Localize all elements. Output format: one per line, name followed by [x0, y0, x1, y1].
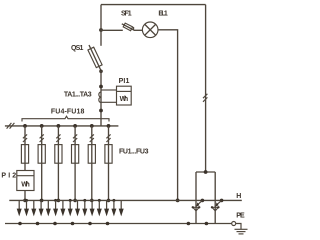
svg-text:EL1: EL1: [158, 11, 167, 18]
node : bridge center dot: [204, 170, 208, 174]
node : dot below TA: [99, 109, 103, 113]
node : N line junction dot drop 6: [107, 199, 111, 203]
arrow : outgoing line 4: [39, 199, 44, 217]
wire : drop 4 upper: [74, 126, 76, 145]
arrow : outgoing line 12: [97, 199, 102, 217]
wire : drop 6 lower to N line: [108, 164, 110, 201]
cable mark on drop 5: [90, 134, 94, 142]
node : N line junction dot drop 2: [40, 199, 44, 203]
arrow : outgoing line 8: [68, 199, 73, 217]
arrow : outgoing line 11: [90, 200, 95, 216]
svg-text:TA1...TA3: TA1...TA3: [64, 91, 92, 98]
arrow : outgoing line 5: [46, 200, 51, 216]
wire : right arrester vertical: [214, 172, 216, 224]
current transformer TA1...TA3: [99, 92, 101, 103]
wire : drop 2 lower to N line: [41, 164, 43, 201]
PE line: [5, 223, 232, 225]
cable mark on drop 6: [106, 134, 110, 142]
wire : drop 3 upper: [57, 126, 59, 145]
wire : TA tap upper to PI1: [101, 89, 117, 91]
fuse on drop 4: [72, 145, 79, 164]
node : QS1 pivot dot: [99, 70, 103, 74]
wire : drop 5 lower to N line: [91, 164, 93, 201]
node : bus junction dot drop 3: [57, 124, 61, 128]
brace over group fuses: [22, 116, 109, 121]
arrow : outgoing line 7: [60, 200, 65, 216]
cable mark on drop 3: [56, 134, 60, 142]
cable mark on drop 2: [40, 134, 44, 142]
arrow : outgoing line 15: [119, 200, 124, 216]
node : N line junction dot drop 1: [23, 199, 27, 203]
wire : drop 1 upper: [24, 126, 26, 145]
arrow : outgoing line 9: [75, 200, 80, 216]
wire : drop 3 lower to N line: [57, 164, 59, 201]
bus bar: [5, 125, 119, 127]
meter PI1 box with Wh: [117, 86, 132, 105]
terminal circle on PE line: [232, 222, 236, 226]
wire : drop 1 to meter PI2: [24, 164, 26, 171]
node : lamp return on N line: [176, 199, 180, 203]
node : bus junction dot drop 1: [23, 124, 27, 128]
node : PE line dot 3: [53, 222, 57, 226]
node : PE line dot 2: [36, 222, 40, 226]
node : PE line dot 4: [71, 222, 75, 226]
node : N line junction dot drop 5: [90, 199, 94, 203]
svg-text:SF1: SF1: [121, 11, 132, 18]
wire : PE to ground: [236, 224, 241, 230]
meter PI2 box with Wh: [17, 171, 34, 191]
arrow : outgoing line 2: [24, 199, 29, 217]
wire : drop 6 upper: [108, 126, 110, 145]
wire : SF1 to EL1: [134, 29, 143, 31]
arrow : outgoing line 1: [17, 200, 22, 216]
cable mark on right feeder: [203, 94, 207, 102]
lamp EL1: [142, 22, 158, 38]
wire : drop 4 lower to N line: [74, 164, 76, 201]
fuse on drop 6: [105, 145, 112, 164]
arrow : outgoing line 10: [82, 199, 87, 217]
node : PE line dot 1: [18, 222, 22, 226]
wire : left arrester vertical: [195, 172, 197, 224]
svg-text:PI2: PI2: [1, 173, 16, 180]
wire : drop 5 upper: [91, 126, 93, 145]
node : PE line dot 6: [106, 222, 110, 226]
wire : bridge over arresters: [196, 171, 215, 173]
cable mark at bus left end: [7, 123, 15, 129]
node : N line junction dot drop 3: [57, 199, 61, 203]
node : PE line dot 5: [88, 222, 92, 226]
wire : feeder QS1 to bus: [100, 71, 102, 126]
node : PE dot left: [187, 222, 191, 226]
wire : branch to SF1: [101, 29, 123, 31]
fuse on drop 3: [55, 145, 62, 164]
node : bus junction dot drop 5: [90, 124, 94, 128]
svg-text:PE: PE: [236, 213, 245, 220]
svg-text:QS1: QS1: [71, 45, 83, 52]
svg-text:PI1: PI1: [119, 78, 130, 85]
cable mark on drop 1: [23, 134, 27, 142]
node : bus junction dot drop 2: [40, 124, 44, 128]
node : PE dot right: [205, 222, 209, 226]
switch-fuse QS1: [88, 45, 103, 73]
arrow : outgoing line 6: [53, 199, 58, 217]
N line (H bus): [9, 199, 242, 201]
node : dot above TA: [99, 85, 103, 89]
wire : EL1 to right corner and down to N line: [158, 30, 178, 201]
svg-text:Wh: Wh: [21, 181, 30, 188]
svg-text:Wh: Wh: [120, 96, 129, 103]
wire : feeder top segment: [100, 5, 102, 46]
fuse on drop 2: [38, 145, 45, 164]
node : N line junction dot drop 4: [73, 199, 77, 203]
arrow : outgoing line 14: [111, 199, 116, 217]
svg-text:FU1...FU3: FU1...FU3: [119, 148, 149, 155]
node A : junction dot at branch to SF1: [99, 28, 103, 32]
ground: [235, 229, 248, 234]
arrester F2 (right): [211, 199, 224, 211]
svg-text:H: H: [236, 193, 241, 200]
arrow : outgoing line 3: [31, 200, 36, 216]
cable mark on drop 4: [73, 134, 77, 142]
wire : top horizontal line: [101, 4, 206, 6]
node : bus junction dot drop 4: [73, 124, 77, 128]
node : bus junction dot drop 6: [107, 124, 111, 128]
arrow : outgoing line 13: [104, 200, 109, 216]
arrester F1 (left): [192, 199, 205, 211]
wire : TA tap lower to PI1: [101, 101, 117, 103]
wire : drop 1 below PI2 to N line: [24, 191, 26, 201]
fuse on drop 5: [88, 145, 95, 164]
fuse on drop 1: [21, 145, 28, 164]
wire : right feeder vertical: [205, 5, 207, 172]
wire : drop 2 upper: [41, 126, 43, 145]
breaker SF1: [122, 23, 134, 31]
svg-text:FU4-FU18: FU4-FU18: [51, 108, 85, 115]
